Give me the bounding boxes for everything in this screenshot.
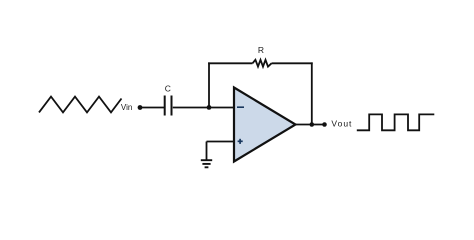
resistor R1 zigzag	[253, 60, 272, 67]
wire ground drop	[206, 142, 208, 161]
wire C to inverting input	[173, 107, 234, 109]
wire feedback vertical left	[208, 62, 210, 107]
wire output	[296, 124, 325, 126]
output square waveform	[357, 114, 435, 130]
input triangle waveform	[39, 97, 122, 113]
ground	[201, 159, 212, 161]
capacitor C1 plates	[164, 96, 166, 116]
wire top rail right	[272, 62, 313, 64]
pin plus sign	[238, 140, 243, 142]
wire top rail left	[208, 62, 252, 64]
wire non-inverting input	[207, 141, 235, 143]
node Vin dot	[138, 105, 143, 110]
pin minus sign	[237, 106, 244, 108]
wire Vin to C	[140, 107, 164, 109]
svg-text:R: R	[258, 45, 264, 55]
node Vout terminal dot	[322, 122, 327, 127]
svg-text:Vout: Vout	[331, 119, 352, 129]
svg-text:C: C	[165, 83, 171, 93]
wire feedback vertical right	[311, 62, 313, 124]
op-amp U1 triangle	[234, 88, 296, 162]
node output junction dot	[310, 122, 315, 127]
node A junction dot	[207, 105, 212, 110]
svg-text:Vin: Vin	[121, 103, 132, 112]
